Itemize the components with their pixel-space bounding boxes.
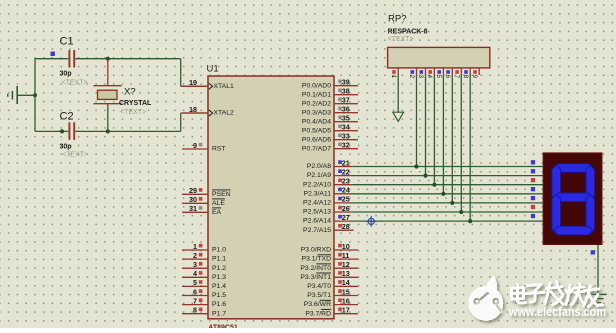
svg-text:17: 17 — [342, 306, 350, 315]
svg-text:<TEXT>: <TEXT> — [62, 152, 88, 159]
svg-text:6: 6 — [444, 75, 451, 79]
svg-text:P2.3/A11: P2.3/A11 — [304, 190, 332, 197]
svg-text:11: 11 — [342, 251, 350, 260]
svg-text:P1.5: P1.5 — [212, 292, 226, 299]
svg-text:P3.0/RXD: P3.0/RXD — [301, 247, 331, 254]
svg-text:C2: C2 — [60, 110, 74, 122]
svg-text:14: 14 — [342, 278, 350, 287]
svg-text:4: 4 — [193, 269, 197, 278]
svg-text:28: 28 — [342, 222, 350, 231]
svg-text:2: 2 — [408, 75, 415, 79]
svg-text:16: 16 — [342, 296, 350, 305]
svg-text:P0.6/AD6: P0.6/AD6 — [302, 136, 331, 143]
svg-text:AT89C51: AT89C51 — [208, 324, 238, 328]
svg-text:P0.4/AD4: P0.4/AD4 — [302, 118, 331, 125]
svg-text:P0.3/AD3: P0.3/AD3 — [302, 109, 331, 116]
svg-text:12: 12 — [342, 260, 350, 269]
svg-text:32: 32 — [342, 141, 350, 150]
svg-text:RP?: RP? — [388, 14, 406, 25]
svg-text:P1.7: P1.7 — [212, 310, 226, 317]
svg-text:31: 31 — [189, 204, 197, 213]
svg-text:P0.5/AD5: P0.5/AD5 — [302, 127, 331, 134]
svg-text:P0.2/AD2: P0.2/AD2 — [302, 100, 331, 107]
svg-text:30p: 30p — [60, 143, 72, 150]
svg-text:33: 33 — [342, 132, 350, 141]
svg-text:21: 21 — [342, 158, 350, 167]
svg-text:RST: RST — [212, 146, 226, 153]
svg-text:8: 8 — [462, 75, 469, 79]
svg-text:5: 5 — [435, 75, 442, 79]
svg-text:P1.3: P1.3 — [212, 274, 226, 281]
svg-text:P2.2/A10: P2.2/A10 — [303, 181, 331, 188]
svg-text:15: 15 — [342, 287, 350, 296]
svg-text:5: 5 — [193, 278, 197, 287]
svg-text:C1: C1 — [60, 36, 74, 48]
svg-text:P3.5/T1: P3.5/T1 — [307, 292, 331, 299]
svg-text:4: 4 — [426, 75, 433, 79]
svg-text:P3.6/WR: P3.6/WR — [304, 301, 331, 308]
svg-text:30p: 30p — [60, 71, 72, 78]
svg-text:3: 3 — [193, 260, 197, 269]
svg-text:25: 25 — [342, 195, 350, 204]
svg-text:U1: U1 — [207, 63, 219, 74]
svg-text:P0.0/AD0: P0.0/AD0 — [302, 82, 331, 89]
svg-text:XTAL1: XTAL1 — [214, 83, 234, 90]
svg-text:29: 29 — [189, 186, 197, 195]
svg-text:9: 9 — [193, 141, 197, 150]
svg-text:P1.4: P1.4 — [212, 283, 226, 290]
svg-text:PSEN: PSEN — [212, 191, 231, 198]
svg-text:P1.6: P1.6 — [212, 301, 226, 308]
svg-text:6: 6 — [193, 287, 197, 296]
svg-text:X?: X? — [124, 87, 136, 98]
svg-text:18: 18 — [189, 105, 197, 114]
svg-text:24: 24 — [342, 186, 350, 195]
svg-text:P3.4/T0: P3.4/T0 — [307, 283, 331, 290]
svg-text:P1.1: P1.1 — [212, 256, 226, 263]
svg-text:P2.4/A12: P2.4/A12 — [303, 200, 331, 207]
svg-text:P0.7/AD7: P0.7/AD7 — [302, 145, 331, 152]
svg-text:<TEXT>: <TEXT> — [388, 36, 414, 43]
svg-text:RESPACK-8: RESPACK-8 — [388, 29, 428, 36]
svg-text:1: 1 — [193, 242, 197, 251]
svg-text:P3.7/RD: P3.7/RD — [305, 310, 331, 317]
svg-text:P2.1/A9: P2.1/A9 — [307, 172, 331, 179]
svg-text:P0.1/AD1: P0.1/AD1 — [302, 91, 331, 98]
svg-text:8: 8 — [193, 306, 197, 315]
svg-text:22: 22 — [342, 167, 350, 176]
svg-text:2: 2 — [193, 251, 197, 260]
svg-text:P2.6/A14: P2.6/A14 — [303, 218, 331, 225]
svg-text:39: 39 — [342, 78, 350, 87]
svg-text:P3.3/INT1: P3.3/INT1 — [300, 274, 331, 281]
svg-text:37: 37 — [342, 96, 350, 105]
svg-text:P2.0/A8: P2.0/A8 — [307, 163, 331, 170]
svg-text:P3.1/TXD: P3.1/TXD — [302, 256, 332, 263]
svg-text:26: 26 — [342, 204, 350, 213]
svg-text:27: 27 — [342, 213, 350, 222]
svg-text:XTAL2: XTAL2 — [214, 110, 234, 117]
svg-text:13: 13 — [342, 269, 350, 278]
svg-text:36: 36 — [342, 105, 350, 114]
svg-text:23: 23 — [342, 177, 350, 186]
svg-text:38: 38 — [342, 87, 350, 96]
svg-text:ALE: ALE — [212, 200, 225, 207]
svg-text:9: 9 — [471, 75, 478, 79]
svg-text:P1.0: P1.0 — [212, 247, 226, 254]
svg-text:19: 19 — [189, 78, 197, 87]
svg-text:30: 30 — [189, 195, 197, 204]
svg-text:P2.7/A15: P2.7/A15 — [303, 227, 331, 234]
svg-text:www.elecfans.com: www.elecfans.com — [508, 304, 606, 319]
svg-text:P3.2/INT0: P3.2/INT0 — [300, 265, 331, 272]
svg-text:<TEXT>: <TEXT> — [120, 109, 146, 116]
svg-text:1: 1 — [390, 75, 397, 79]
svg-text:7: 7 — [453, 75, 460, 79]
svg-text:P2.5/A13: P2.5/A13 — [303, 209, 331, 216]
svg-text:3: 3 — [417, 75, 424, 79]
svg-text:35: 35 — [342, 114, 350, 123]
svg-text:10: 10 — [342, 242, 350, 251]
svg-text:P1.2: P1.2 — [212, 265, 226, 272]
svg-text:CRYSTAL: CRYSTAL — [119, 100, 152, 107]
svg-text:34: 34 — [342, 123, 350, 132]
svg-text:7: 7 — [193, 296, 197, 305]
svg-text:<TEXT>: <TEXT> — [62, 79, 88, 86]
svg-text:EA: EA — [212, 209, 222, 216]
